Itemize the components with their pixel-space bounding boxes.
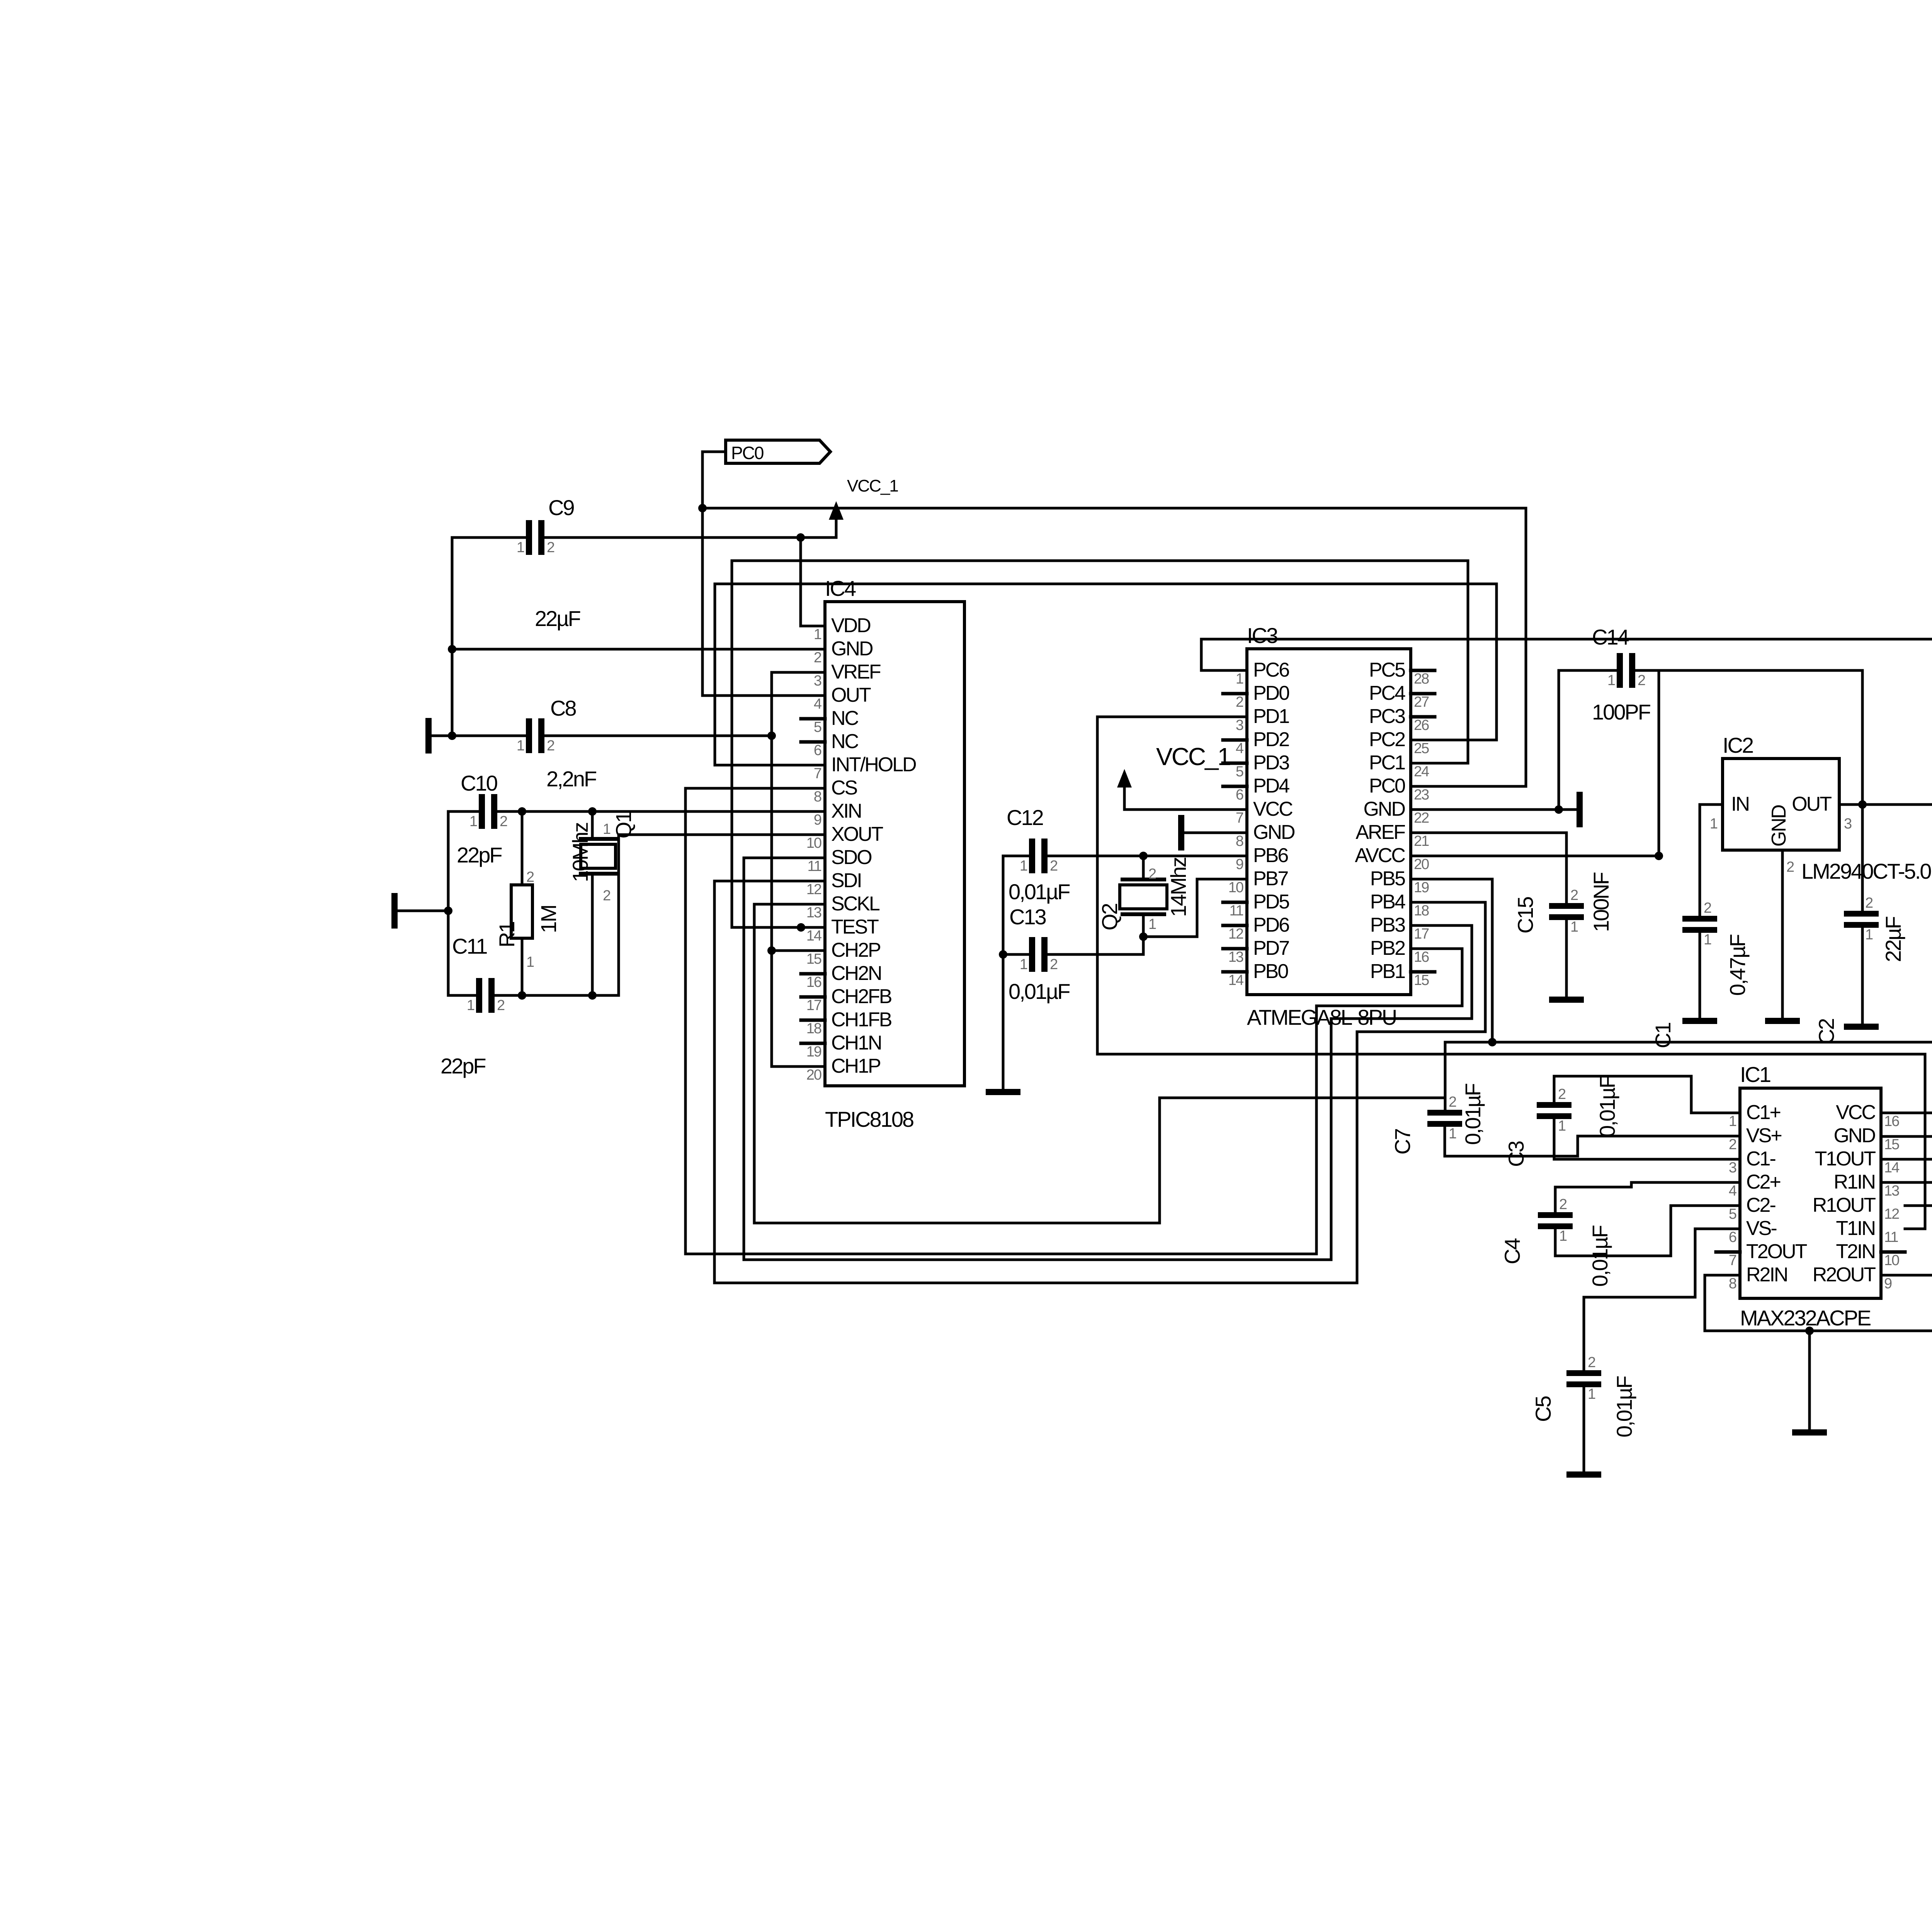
- svg-text:24: 24: [1414, 764, 1429, 780]
- svg-text:0,01µF: 0,01µF: [1588, 1226, 1612, 1287]
- svg-text:VCC: VCC: [1253, 798, 1293, 820]
- svg-text:1: 1: [1236, 671, 1243, 687]
- svg-text:PD5: PD5: [1253, 891, 1289, 913]
- svg-text:22pF: 22pF: [440, 1054, 485, 1078]
- svg-text:1: 1: [526, 954, 534, 970]
- svg-text:13: 13: [1228, 949, 1243, 965]
- svg-text:IC1: IC1: [1740, 1062, 1770, 1087]
- svg-text:PC5: PC5: [1369, 659, 1405, 681]
- svg-text:1: 1: [1710, 816, 1718, 832]
- svg-text:3: 3: [1844, 816, 1852, 832]
- svg-text:15: 15: [1414, 972, 1429, 988]
- svg-text:1: 1: [1449, 1126, 1456, 1142]
- svg-text:2: 2: [547, 539, 554, 556]
- svg-text:AVCC: AVCC: [1355, 844, 1405, 867]
- svg-text:VS-: VS-: [1746, 1217, 1776, 1240]
- svg-text:10Mhz: 10Mhz: [568, 823, 592, 882]
- svg-text:C1-: C1-: [1746, 1148, 1775, 1170]
- svg-text:R2OUT: R2OUT: [1813, 1264, 1876, 1286]
- svg-text:1: 1: [1865, 927, 1873, 943]
- svg-text:1M: 1M: [536, 905, 561, 933]
- svg-text:9: 9: [1884, 1276, 1892, 1292]
- svg-text:16: 16: [1884, 1113, 1899, 1129]
- svg-text:2: 2: [1449, 1094, 1456, 1110]
- svg-text:C8: C8: [550, 696, 576, 720]
- svg-text:PB1: PB1: [1370, 960, 1405, 983]
- svg-text:VCC_1: VCC_1: [847, 476, 898, 495]
- svg-text:12: 12: [806, 881, 821, 898]
- svg-text:0,01µF: 0,01µF: [1461, 1084, 1485, 1145]
- svg-text:PB7: PB7: [1253, 867, 1288, 890]
- svg-text:MAX232ACPE: MAX232ACPE: [1740, 1306, 1871, 1330]
- svg-text:1: 1: [1558, 1118, 1566, 1134]
- svg-text:GND: GND: [1768, 805, 1790, 847]
- svg-text:CH1FB: CH1FB: [831, 1009, 891, 1031]
- svg-text:R1OUT: R1OUT: [1813, 1194, 1876, 1216]
- svg-text:C14: C14: [1592, 625, 1629, 649]
- svg-text:2: 2: [1050, 956, 1058, 973]
- svg-text:R1: R1: [495, 922, 519, 947]
- svg-text:10: 10: [1884, 1252, 1899, 1269]
- svg-text:SDI: SDI: [831, 869, 861, 892]
- svg-text:PD7: PD7: [1253, 937, 1289, 959]
- svg-text:1: 1: [1570, 919, 1578, 935]
- svg-text:20: 20: [806, 1067, 821, 1083]
- svg-text:8: 8: [1729, 1276, 1736, 1292]
- svg-text:NC: NC: [831, 730, 859, 753]
- svg-text:17: 17: [806, 997, 821, 1014]
- svg-text:15: 15: [1884, 1136, 1899, 1153]
- svg-text:13: 13: [806, 905, 821, 921]
- svg-text:8: 8: [814, 789, 821, 805]
- svg-text:2: 2: [547, 738, 554, 754]
- svg-text:C7: C7: [1390, 1129, 1415, 1155]
- svg-text:1: 1: [1020, 956, 1027, 973]
- svg-text:2: 2: [1588, 1354, 1595, 1371]
- svg-text:IC4: IC4: [825, 576, 856, 600]
- svg-text:28: 28: [1414, 671, 1429, 687]
- svg-text:10: 10: [1228, 879, 1243, 896]
- svg-text:PD3: PD3: [1253, 752, 1289, 774]
- svg-text:PD2: PD2: [1253, 728, 1289, 751]
- svg-text:12: 12: [1228, 926, 1243, 942]
- svg-text:CH2N: CH2N: [831, 962, 881, 985]
- svg-text:T1IN: T1IN: [1836, 1217, 1875, 1240]
- svg-text:20: 20: [1414, 856, 1429, 873]
- svg-text:23: 23: [1414, 787, 1429, 803]
- svg-text:1: 1: [467, 997, 474, 1014]
- svg-text:PC3: PC3: [1369, 705, 1405, 728]
- svg-text:19: 19: [806, 1044, 821, 1060]
- svg-text:CS: CS: [831, 777, 857, 799]
- svg-text:IC3: IC3: [1247, 623, 1277, 648]
- svg-text:C4: C4: [1500, 1238, 1524, 1264]
- svg-text:16: 16: [806, 974, 821, 990]
- svg-text:1: 1: [469, 813, 477, 830]
- svg-text:4: 4: [1236, 740, 1244, 757]
- svg-text:R1IN: R1IN: [1834, 1171, 1875, 1193]
- svg-text:T1OUT: T1OUT: [1815, 1148, 1876, 1170]
- svg-text:Q2: Q2: [1097, 903, 1122, 930]
- svg-text:13: 13: [1884, 1183, 1899, 1199]
- svg-text:7: 7: [814, 765, 821, 782]
- svg-text:XOUT: XOUT: [831, 823, 883, 845]
- svg-text:LM2940CT-5.0: LM2940CT-5.0: [1801, 859, 1931, 883]
- svg-text:C2: C2: [1814, 1019, 1838, 1044]
- svg-text:11: 11: [1884, 1229, 1898, 1245]
- svg-text:PD4: PD4: [1253, 775, 1289, 797]
- svg-text:3: 3: [1236, 717, 1243, 733]
- svg-text:17: 17: [1414, 926, 1429, 942]
- svg-text:6: 6: [1236, 787, 1243, 803]
- svg-text:PB6: PB6: [1253, 844, 1288, 867]
- svg-text:TPIC8108: TPIC8108: [825, 1107, 913, 1131]
- svg-text:4: 4: [1729, 1183, 1737, 1199]
- svg-text:2: 2: [1729, 1136, 1736, 1153]
- svg-text:2: 2: [1786, 859, 1794, 875]
- svg-text:18: 18: [806, 1021, 821, 1037]
- svg-text:C11: C11: [452, 934, 487, 958]
- svg-text:22: 22: [1414, 810, 1429, 826]
- svg-text:1: 1: [1588, 1386, 1595, 1402]
- svg-text:T2IN: T2IN: [1836, 1240, 1875, 1263]
- svg-text:5: 5: [1236, 764, 1243, 780]
- svg-text:PD0: PD0: [1253, 682, 1289, 704]
- svg-text:100PF: 100PF: [1592, 700, 1650, 724]
- svg-text:2: 2: [526, 869, 534, 885]
- svg-text:6: 6: [814, 742, 821, 759]
- svg-text:9: 9: [814, 812, 821, 828]
- svg-text:OUT: OUT: [1792, 793, 1832, 815]
- svg-text:3: 3: [814, 673, 821, 689]
- svg-text:T2OUT: T2OUT: [1746, 1240, 1807, 1263]
- svg-text:IC2: IC2: [1723, 733, 1753, 757]
- svg-text:OUT: OUT: [831, 684, 871, 706]
- svg-text:4: 4: [814, 696, 822, 712]
- svg-text:2: 2: [500, 813, 507, 830]
- svg-text:100NF: 100NF: [1589, 873, 1613, 932]
- svg-text:2: 2: [603, 888, 611, 904]
- svg-text:PC1: PC1: [1369, 752, 1405, 774]
- svg-text:2: 2: [1148, 866, 1156, 882]
- svg-text:C3: C3: [1504, 1141, 1528, 1167]
- svg-text:PC0: PC0: [1369, 775, 1405, 797]
- svg-text:C1: C1: [1651, 1023, 1675, 1048]
- svg-text:PD6: PD6: [1253, 914, 1289, 936]
- svg-text:6: 6: [1729, 1229, 1736, 1245]
- svg-text:C1+: C1+: [1746, 1101, 1780, 1124]
- svg-text:CH1P: CH1P: [831, 1055, 880, 1077]
- svg-text:26: 26: [1414, 717, 1429, 733]
- svg-text:PB4: PB4: [1370, 891, 1405, 913]
- svg-text:GND: GND: [831, 638, 873, 660]
- svg-text:16: 16: [1414, 949, 1429, 965]
- svg-text:11: 11: [1230, 903, 1243, 919]
- svg-text:C13: C13: [1009, 905, 1046, 929]
- svg-text:IN: IN: [1731, 793, 1749, 815]
- svg-text:0,47µF: 0,47µF: [1725, 935, 1750, 996]
- svg-text:14: 14: [1884, 1160, 1900, 1176]
- svg-text:2,2nF: 2,2nF: [546, 767, 596, 791]
- svg-text:VCC_1: VCC_1: [1156, 743, 1230, 771]
- svg-text:27: 27: [1414, 694, 1429, 710]
- svg-text:7: 7: [1729, 1252, 1736, 1269]
- svg-text:0,01µF: 0,01µF: [1595, 1076, 1619, 1137]
- svg-text:CH2FB: CH2FB: [831, 985, 891, 1008]
- svg-text:0,01µF: 0,01µF: [1612, 1376, 1636, 1437]
- svg-text:22pF: 22pF: [457, 843, 502, 867]
- svg-text:C15: C15: [1513, 897, 1537, 934]
- svg-text:VCC: VCC: [1836, 1101, 1875, 1124]
- svg-text:7: 7: [1236, 810, 1243, 826]
- svg-text:1: 1: [1607, 672, 1615, 689]
- svg-text:1: 1: [1559, 1228, 1567, 1244]
- svg-text:14: 14: [806, 928, 822, 944]
- svg-text:SCKL: SCKL: [831, 893, 880, 915]
- svg-text:25: 25: [1414, 740, 1429, 757]
- svg-text:PC4: PC4: [1369, 682, 1405, 704]
- svg-text:2: 2: [1559, 1196, 1567, 1213]
- svg-text:1: 1: [517, 539, 524, 556]
- svg-text:Q1: Q1: [611, 811, 636, 839]
- svg-text:9: 9: [1236, 856, 1243, 873]
- svg-text:1: 1: [1704, 932, 1711, 948]
- svg-text:15: 15: [806, 951, 821, 967]
- svg-text:1: 1: [1729, 1113, 1736, 1129]
- svg-text:1: 1: [517, 738, 524, 754]
- svg-text:2: 2: [1236, 694, 1243, 710]
- svg-text:2: 2: [1638, 672, 1645, 689]
- svg-text:PB0: PB0: [1253, 960, 1288, 983]
- svg-text:14Mhz: 14Mhz: [1166, 857, 1190, 917]
- svg-text:2: 2: [1558, 1086, 1566, 1102]
- svg-text:2: 2: [1704, 900, 1711, 916]
- svg-text:GND: GND: [1833, 1124, 1875, 1147]
- svg-text:VREF: VREF: [831, 661, 881, 683]
- svg-text:19: 19: [1414, 879, 1429, 896]
- svg-text:10: 10: [806, 835, 821, 851]
- svg-text:XIN: XIN: [831, 800, 861, 822]
- svg-text:C5: C5: [1531, 1397, 1555, 1422]
- svg-text:11: 11: [808, 858, 821, 874]
- svg-text:5: 5: [1729, 1206, 1736, 1222]
- svg-text:INT/HOLD: INT/HOLD: [831, 754, 916, 776]
- svg-text:22µF: 22µF: [1881, 917, 1905, 962]
- svg-text:1: 1: [603, 821, 611, 837]
- svg-text:CH1N: CH1N: [831, 1032, 881, 1054]
- svg-text:GND: GND: [1363, 798, 1405, 820]
- svg-text:C12: C12: [1007, 805, 1043, 830]
- svg-text:C10: C10: [461, 771, 497, 795]
- svg-text:12: 12: [1884, 1206, 1899, 1222]
- svg-text:PC6: PC6: [1253, 659, 1289, 681]
- svg-text:PC0: PC0: [731, 443, 764, 463]
- svg-text:14: 14: [1228, 972, 1244, 988]
- svg-text:R2IN: R2IN: [1746, 1264, 1787, 1286]
- svg-text:VS+: VS+: [1746, 1124, 1781, 1147]
- svg-text:AREF: AREF: [1355, 821, 1405, 844]
- svg-text:2: 2: [1865, 895, 1873, 911]
- svg-text:18: 18: [1414, 903, 1429, 919]
- svg-text:2: 2: [497, 997, 505, 1014]
- svg-text:TEST: TEST: [831, 916, 879, 938]
- svg-text:PB2: PB2: [1370, 937, 1405, 959]
- svg-text:C2+: C2+: [1746, 1171, 1780, 1193]
- svg-text:1: 1: [1148, 916, 1156, 932]
- svg-text:NC: NC: [831, 707, 859, 730]
- svg-text:CH2P: CH2P: [831, 939, 880, 961]
- svg-text:PC2: PC2: [1369, 728, 1405, 751]
- svg-text:C9: C9: [548, 495, 574, 520]
- svg-text:2: 2: [814, 650, 821, 666]
- svg-text:PD1: PD1: [1253, 705, 1289, 728]
- svg-text:5: 5: [814, 719, 821, 735]
- svg-text:PB5: PB5: [1370, 867, 1405, 890]
- svg-text:VDD: VDD: [831, 614, 871, 637]
- svg-text:C2-: C2-: [1746, 1194, 1775, 1216]
- svg-text:0,01µF: 0,01µF: [1009, 979, 1070, 1004]
- svg-text:3: 3: [1729, 1160, 1736, 1176]
- svg-text:PB3: PB3: [1370, 914, 1405, 936]
- svg-text:0,01µF: 0,01µF: [1009, 879, 1070, 904]
- svg-text:2: 2: [1050, 858, 1058, 874]
- svg-text:2: 2: [1570, 887, 1578, 903]
- svg-text:1: 1: [814, 626, 821, 643]
- svg-text:SDO: SDO: [831, 846, 871, 869]
- svg-text:1: 1: [1020, 858, 1027, 874]
- svg-text:21: 21: [1414, 833, 1429, 849]
- svg-text:8: 8: [1236, 833, 1243, 849]
- svg-text:22µF: 22µF: [535, 606, 580, 631]
- svg-text:GND: GND: [1253, 821, 1295, 844]
